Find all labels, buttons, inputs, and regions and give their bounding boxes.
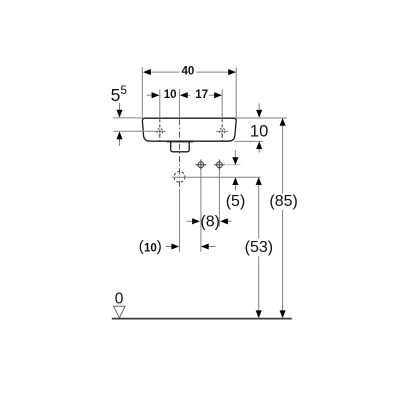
arrow (10) right: [201, 243, 209, 249]
arrow 10 left: [152, 92, 160, 98]
drain flange: [167, 141, 193, 143]
wire: horizontal line at trap axis: [172, 176, 261, 178]
wire: (85) dimension line: [282, 125, 284, 193]
wire: right extension basin bottom: [235, 140, 263, 142]
wire: (10) dimension tails: [166, 246, 172, 248]
arrow 10 right: [180, 92, 188, 98]
basin outline: [142, 118, 236, 141]
wire: fixing hole right extension down: [218, 170, 220, 226]
arrow (85) bottom: [280, 310, 286, 318]
wire: left extension line tap axis: [113, 130, 166, 132]
arrow (5) down: [234, 150, 236, 157]
arrow 5^5 down: [119, 103, 121, 111]
arrow (8) left: [192, 218, 200, 224]
datum triangle: [114, 306, 126, 318]
fixing hole right: [214, 160, 225, 171]
svg-text:0: 0: [115, 291, 124, 308]
arrow 40 right: [228, 69, 236, 75]
wire: right extension basin top: [236, 117, 287, 119]
wire: extension line basin right (40 dim): [235, 67, 237, 118]
tap hole left: dashed circle: [157, 128, 163, 134]
wire: extension line tap left: [159, 89, 161, 118]
arrow 17 right: [214, 92, 222, 98]
svg-text:10: 10: [144, 242, 157, 254]
arrow (85) top: [280, 118, 286, 126]
wire: extension line basin left (40 dim): [141, 67, 143, 118]
tap hole right: dashed vertical: [221, 119, 223, 140]
fixing hole left: [196, 160, 207, 171]
arrow 40 left: [143, 69, 151, 75]
wire: centerline extension below trap: [179, 191, 181, 252]
wire: (53) dimension line: [258, 185, 260, 239]
wire: fixing hole left extension down: [200, 170, 202, 252]
wire: left extension line basin top: [113, 117, 142, 119]
svg-text:40: 40: [182, 66, 195, 78]
svg-text:(85): (85): [269, 193, 297, 210]
svg-text:17: 17: [195, 89, 208, 101]
svg-text:(5): (5): [226, 193, 246, 210]
wire: line from fixing holes to (5) arrow: [226, 164, 241, 166]
centerline dashed through basin and drain: [179, 119, 181, 190]
arrow (8) right: [220, 218, 228, 224]
arrow (53) top: [256, 177, 262, 185]
wire: 40 dimension line: [144, 71, 180, 73]
svg-text:(8): (8): [200, 213, 220, 230]
tap hole left: dashed vertical: [159, 119, 161, 140]
trap connection dashed circle: [174, 172, 185, 183]
svg-text:(53): (53): [245, 239, 273, 256]
arrow (53) bottom: [256, 310, 262, 318]
wire: 10/17 dimension tails: [147, 94, 153, 96]
wire: extension line tap right: [221, 89, 223, 118]
wire: (8) dimension tails: [186, 220, 192, 222]
drain body: [171, 142, 190, 152]
svg-text:): ): [157, 238, 162, 255]
arrow 10-height down: [258, 103, 260, 110]
arrow (5) up: [234, 185, 236, 191]
floor line: [112, 318, 292, 320]
arrow (10) left: [171, 243, 179, 249]
arrow 5^5 up: [119, 139, 121, 146]
svg-text:10: 10: [164, 89, 177, 101]
arrow 10-height up: [258, 149, 260, 153]
wire: extension line centerline above basin: [178, 89, 180, 118]
svg-text:10: 10: [250, 123, 268, 141]
tap hole right: crossbar: [216, 130, 228, 132]
tap hole right: dashed circle: [219, 128, 225, 134]
